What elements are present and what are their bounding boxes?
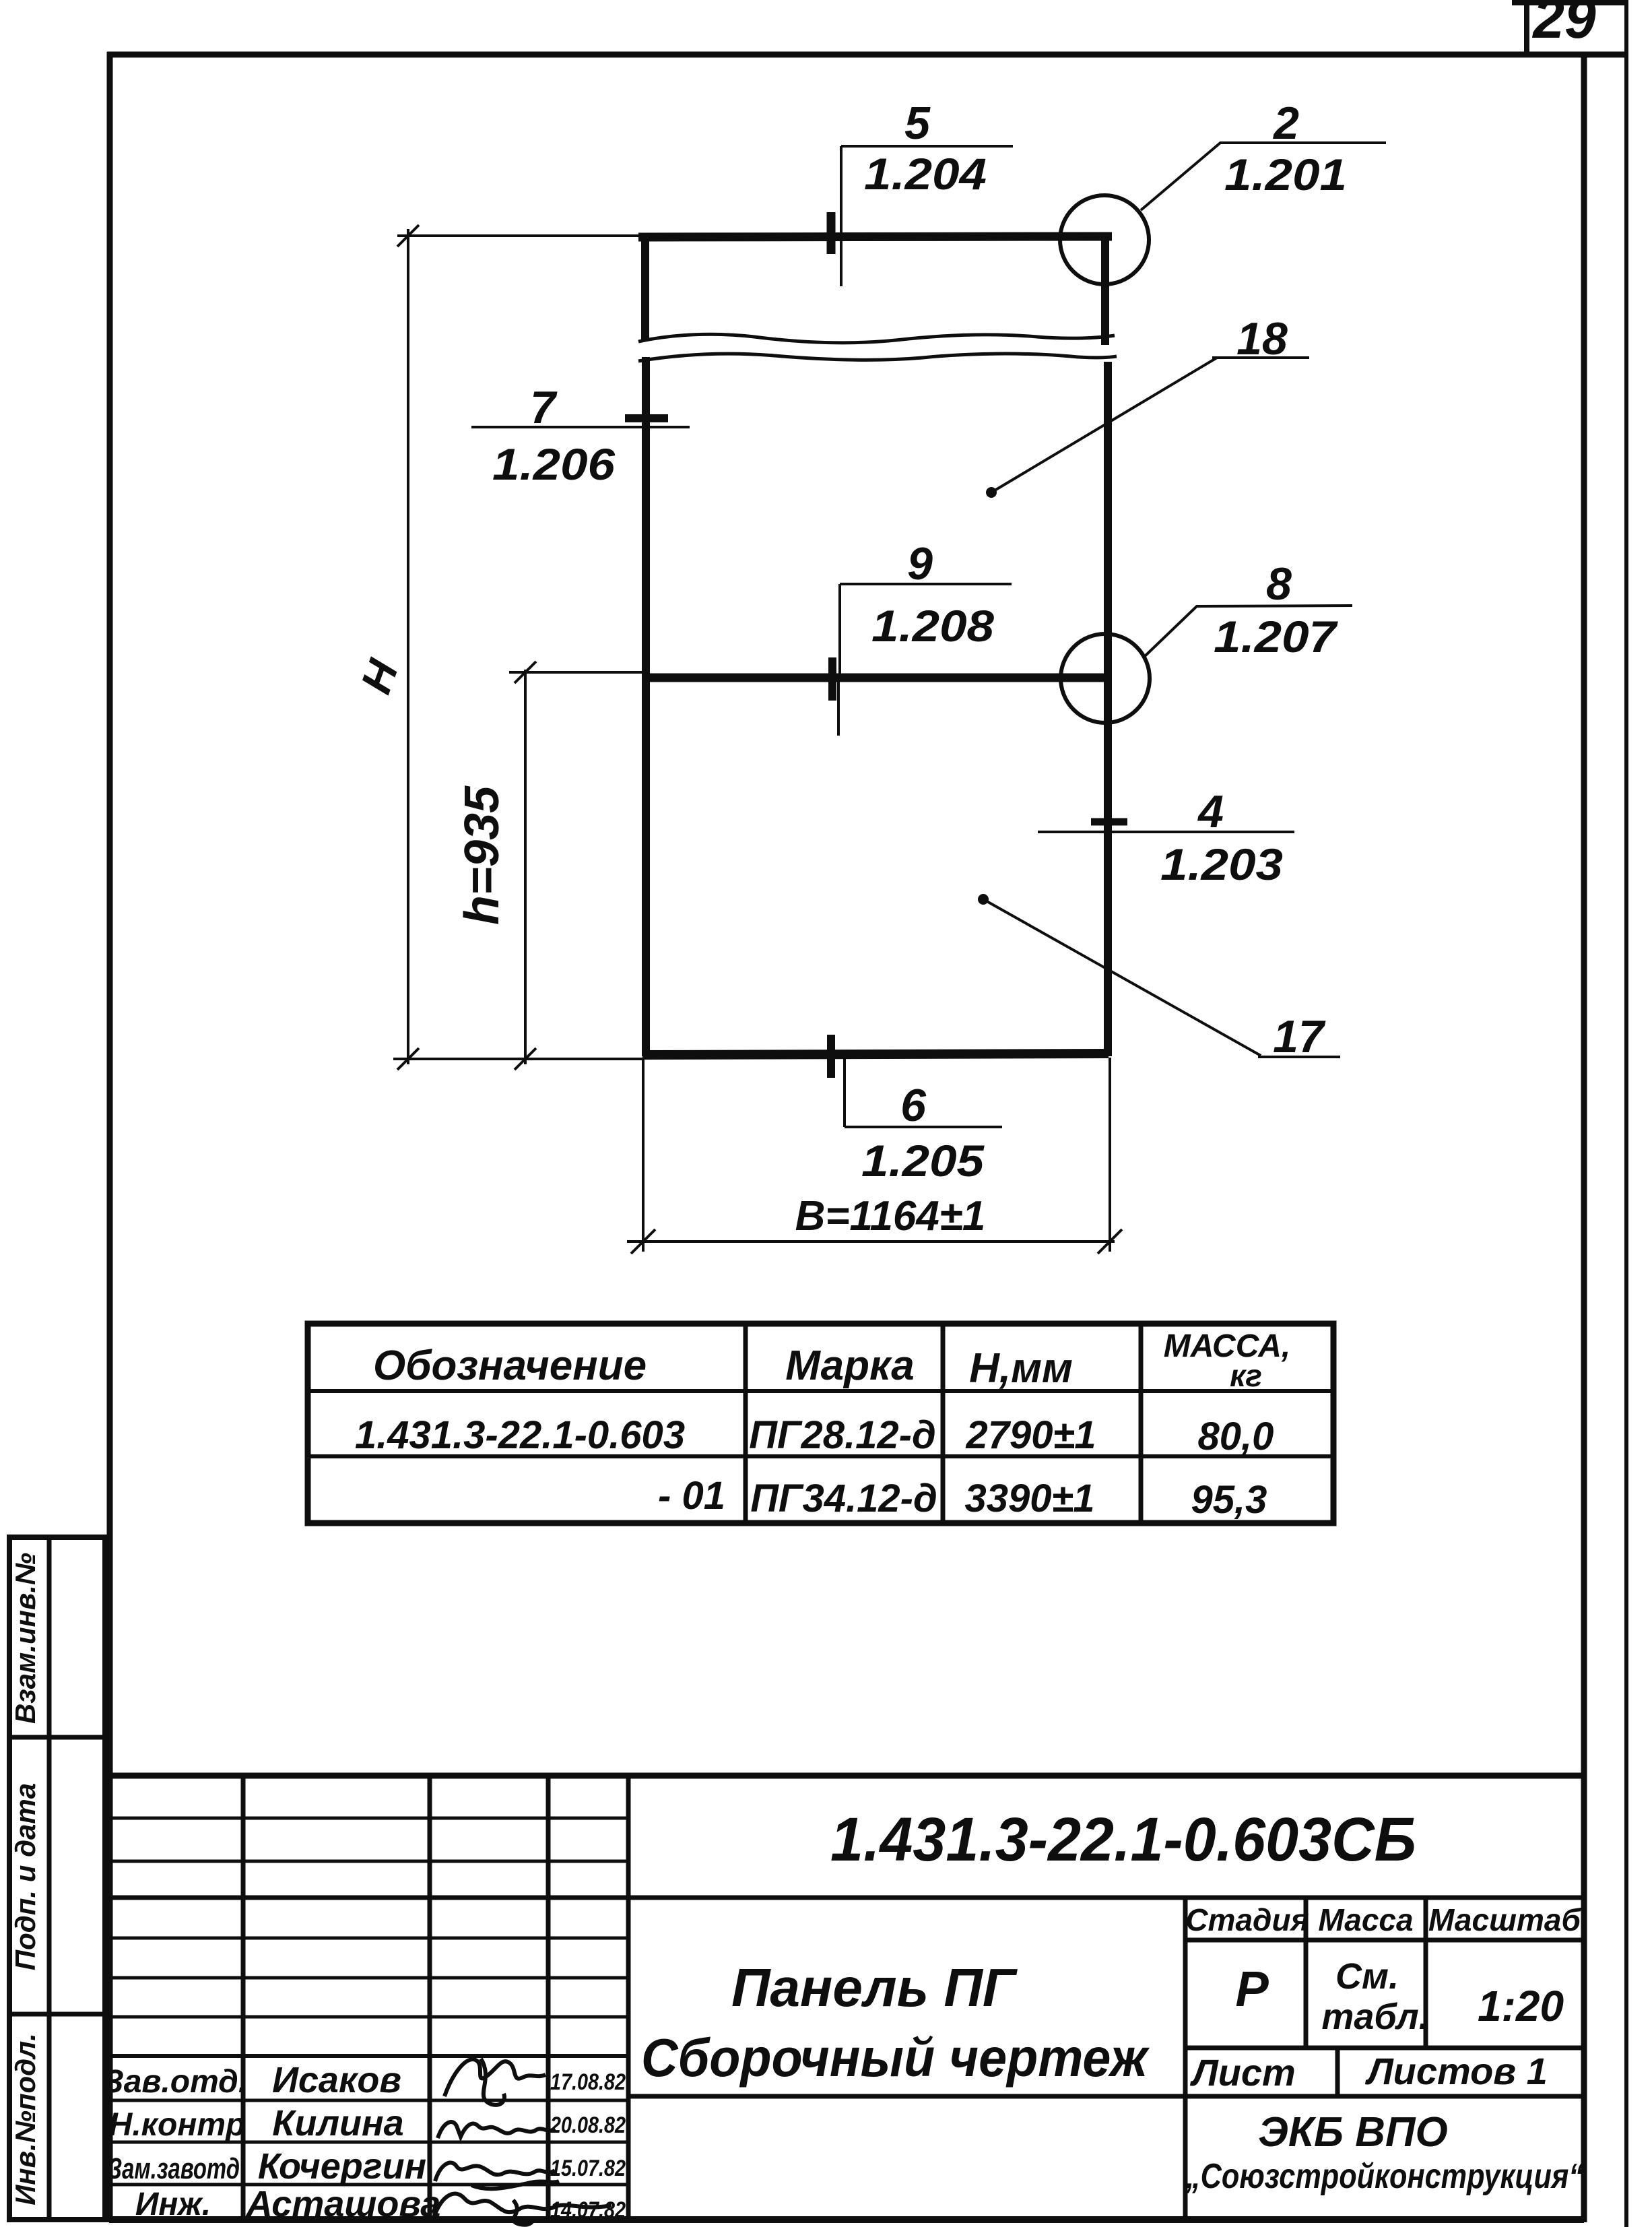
- sheet right trim edge: [1624, 0, 1628, 2227]
- break wavy line upper: [638, 334, 1115, 343]
- signature rows texts: [103, 2060, 626, 2224]
- position 9 leader: [838, 584, 1012, 736]
- svg-text:17: 17: [1273, 1011, 1326, 1062]
- svg-text:ПГ28.12-д: ПГ28.12-д: [749, 1413, 936, 1457]
- position 17 dot: [978, 894, 989, 905]
- position 17 leader: [983, 899, 1340, 1057]
- svg-text:Подп. и дата: Подп. и дата: [9, 1783, 41, 1970]
- table header texts: [355, 1328, 1290, 1522]
- svg-text:18: 18: [1236, 313, 1288, 364]
- panel right edge: [1104, 362, 1112, 1056]
- svg-text:„Союзстройконструкция“: „Союзстройконструкция“: [1185, 2157, 1583, 2196]
- position 5 tick: [827, 212, 836, 254]
- svg-text:1.206: 1.206: [492, 439, 616, 489]
- position 18 leader: [991, 358, 1309, 492]
- B dimension: [627, 1058, 1122, 1254]
- svg-text:ПГ34.12-д: ПГ34.12-д: [750, 1477, 937, 1520]
- svg-text:Асташова: Асташова: [245, 2184, 441, 2224]
- position 4 leader: [1038, 831, 1294, 833]
- position 8 circle: [1061, 634, 1150, 723]
- svg-text:Р: Р: [1235, 1961, 1269, 2017]
- position 8 leader: [1145, 606, 1352, 656]
- break wavy line lower: [638, 354, 1117, 361]
- svg-text:Инв.№подл.: Инв.№подл.: [9, 2033, 41, 2205]
- position 9 tick: [828, 657, 836, 701]
- signature Кочергин: [435, 2163, 555, 2181]
- svg-text:17.08.82: 17.08.82: [550, 2069, 626, 2095]
- h=935 dimension line: [509, 661, 642, 1070]
- svg-text:2790±1: 2790±1: [965, 1413, 1096, 1457]
- spec table grid: [308, 1324, 1333, 1523]
- svg-text:14.07.82: 14.07.82: [550, 2197, 626, 2223]
- svg-text:МАССА,: МАССА,: [1164, 1328, 1290, 1364]
- svg-text:Н,мм: Н,мм: [969, 1345, 1073, 1392]
- page number box: [1512, 1, 1626, 56]
- svg-text:Взам.инв.№: Взам.инв.№: [9, 1553, 41, 1724]
- svg-text:20.08.82: 20.08.82: [550, 2112, 626, 2138]
- svg-text:Зам.завотд: Зам.завотд: [108, 2152, 240, 2185]
- svg-text:5: 5: [904, 98, 931, 149]
- svg-text:Обозначение: Обозначение: [373, 1343, 647, 1389]
- svg-text:2: 2: [1272, 98, 1299, 149]
- svg-text:7: 7: [530, 382, 558, 433]
- left margin stamp boxes: [9, 1537, 105, 2220]
- svg-text:8: 8: [1266, 558, 1292, 610]
- panel middle joint line: [645, 674, 1106, 682]
- position 7 leader: [471, 426, 690, 428]
- svg-text:См.: См.: [1335, 1956, 1399, 1997]
- title block texts: [641, 1805, 1583, 2196]
- svg-text:95,3: 95,3: [1191, 1478, 1267, 1522]
- signature Асташова: [434, 2194, 612, 2218]
- svg-text:Исаков: Исаков: [272, 2060, 401, 2100]
- svg-text:1.204: 1.204: [864, 149, 987, 199]
- svg-text:Панель ПГ: Панель ПГ: [731, 1958, 1018, 2018]
- svg-text:H: H: [352, 653, 408, 700]
- position 4 tick: [1091, 818, 1127, 826]
- svg-text:1.431.3-22.1-0.603: 1.431.3-22.1-0.603: [355, 1413, 685, 1457]
- svg-text:Стадия: Стадия: [1185, 1902, 1309, 1937]
- position 2 leader: [1141, 143, 1386, 210]
- svg-text:Листов 1: Листов 1: [1364, 2050, 1548, 2092]
- svg-text:80,0: 80,0: [1198, 1415, 1274, 1458]
- svg-text:3390±1: 3390±1: [964, 1477, 1094, 1520]
- position 18 dot: [986, 487, 997, 498]
- position 5 leader: [841, 146, 1013, 286]
- panel top edge: [638, 236, 1112, 237]
- title block grid: [109, 1776, 1584, 2220]
- panel top-right edge stub: [1101, 237, 1109, 345]
- svg-text:29: 29: [1531, 0, 1596, 50]
- svg-text:Килина: Килина: [272, 2103, 403, 2143]
- panel top-left edge stub: [641, 237, 649, 340]
- signature Исаков: [434, 2059, 612, 2225]
- position 6 tick: [827, 1035, 835, 1078]
- panel left edge: [642, 357, 650, 1056]
- svg-text:табл.: табл.: [1321, 1997, 1428, 2037]
- svg-text:h=935: h=935: [455, 785, 509, 925]
- svg-text:1.201: 1.201: [1224, 150, 1347, 199]
- svg-text:Сборочный чертеж: Сборочный чертеж: [641, 2028, 1150, 2088]
- H dimension line: [393, 225, 643, 1070]
- svg-text:1.203: 1.203: [1160, 839, 1283, 889]
- svg-text:Лист: Лист: [1189, 2051, 1296, 2094]
- svg-text:Масштаб: Масштаб: [1428, 1902, 1581, 1937]
- svg-text:- 01: - 01: [658, 1474, 725, 1518]
- svg-text:9: 9: [907, 538, 933, 589]
- position 2 circle: [1060, 195, 1149, 284]
- svg-text:кг: кг: [1230, 1358, 1262, 1393]
- svg-text:Инж.: Инж.: [135, 2187, 211, 2222]
- svg-text:4: 4: [1197, 786, 1224, 837]
- svg-text:1:20: 1:20: [1478, 1982, 1564, 2030]
- svg-text:1.208: 1.208: [871, 601, 994, 651]
- svg-text:1.205: 1.205: [861, 1136, 985, 1186]
- position 7 tick: [625, 414, 668, 422]
- svg-text:1.207: 1.207: [1214, 612, 1339, 661]
- svg-text:B=1164±1: B=1164±1: [795, 1193, 986, 1239]
- svg-text:1.431.3-22.1-0.603СБ: 1.431.3-22.1-0.603СБ: [830, 1805, 1416, 1874]
- svg-text:Зав.отд.: Зав.отд.: [103, 2064, 247, 2100]
- svg-text:Марка: Марка: [785, 1343, 914, 1389]
- svg-text:15.07.82: 15.07.82: [550, 2156, 626, 2181]
- signature Килина: [438, 2122, 555, 2138]
- svg-text:Кочергин: Кочергин: [258, 2146, 426, 2187]
- svg-text:Н.контр: Н.контр: [109, 2107, 246, 2143]
- svg-text:ЭКБ ВПО: ЭКБ ВПО: [1258, 2109, 1447, 2156]
- svg-text:Масса: Масса: [1318, 1902, 1413, 1937]
- position 6 leader: [845, 1058, 1002, 1127]
- panel bottom edge: [642, 1054, 1109, 1055]
- svg-text:6: 6: [900, 1080, 927, 1131]
